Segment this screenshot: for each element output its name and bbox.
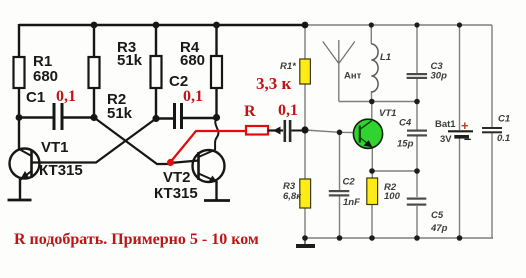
wire VT2 collector squiggle (215, 118, 218, 151)
inductor L1 (371, 44, 378, 92)
wire C2 1nF column (339, 132, 341, 238)
svg-text:VT1: VT1 (41, 139, 69, 156)
capacitor C3 (407, 61, 447, 82)
resistor R1* (yellow) (300, 59, 311, 84)
wire R1* column (304, 25, 306, 238)
svg-text:C2: C2 (343, 177, 356, 188)
svg-text:Ант: Ант (344, 71, 362, 82)
wire left column collector VT1 (18, 24, 20, 150)
wire R4 column (215, 25, 217, 118)
svg-text:680: 680 (33, 68, 58, 85)
svg-text:C5: C5 (431, 210, 444, 221)
wire R to coupling cap (268, 129, 283, 131)
svg-text:30p: 30p (431, 71, 448, 82)
node dots right circuit (302, 22, 309, 29)
ground bottom rail (296, 238, 315, 246)
node C: R3/C2/VT1 base (152, 115, 159, 122)
svg-text:КТ315: КТ315 (39, 162, 83, 179)
svg-text:51k: 51k (107, 105, 133, 122)
capacitor C2 1nF (329, 177, 360, 209)
svg-text:680: 680 (180, 52, 205, 69)
svg-text:C1: C1 (26, 89, 45, 106)
svg-text:VT1: VT1 (379, 108, 396, 119)
transistor VT1 (10, 139, 83, 200)
svg-text:0,1: 0,1 (183, 88, 203, 105)
svg-text:C1: C1 (498, 114, 510, 125)
svg-text:L1: L1 (380, 52, 391, 63)
svg-text:100: 100 (384, 191, 401, 202)
ground VT2 (204, 199, 230, 202)
svg-text:R: R (244, 103, 256, 120)
svg-text:0.1: 0.1 (497, 133, 510, 144)
wire L1 bottom to node (371, 91, 373, 102)
wire R3 column (155, 25, 157, 119)
wire bottom rail (305, 237, 494, 239)
resistor R1 (14, 57, 25, 88)
resistor R3 (151, 56, 162, 88)
resistor R (red) (246, 126, 268, 135)
svg-text:15p: 15p (397, 139, 414, 150)
arrowhead (273, 127, 281, 135)
capacitor C1 (right) (482, 114, 510, 145)
wire VT1 collector (371, 102, 373, 121)
svg-text:0,1: 0,1 (278, 102, 298, 119)
wire base feed (305, 130, 354, 133)
wire C3/C4/C5 column (416, 25, 418, 238)
svg-text:3V: 3V (440, 134, 452, 145)
wire antenna stem (338, 40, 340, 102)
antenna arms (323, 42, 355, 64)
svg-text:–: – (464, 131, 471, 146)
wire top rail right (thin gray) (305, 24, 492, 26)
wire emitter node to C4 (372, 170, 417, 172)
wire battery column (459, 25, 461, 238)
wire red link VT2 base to R (171, 131, 247, 162)
wire top rail left (thick) (19, 24, 305, 27)
resistor R3 6,8k (yellow) (300, 179, 311, 208)
capacitor C1 (19, 88, 94, 130)
svg-text:47p: 47p (430, 223, 448, 234)
capacitor 0,1 coupling (278, 102, 305, 142)
ground VT1 (8, 199, 32, 202)
svg-text:0,1: 0,1 (56, 88, 76, 105)
svg-text:C4: C4 (399, 118, 412, 129)
battery Bat1 (435, 118, 473, 146)
node junction dots on top rail (91, 22, 98, 29)
resistor R2 (89, 57, 100, 88)
wire cross-coupling C1 to VT2 base (94, 118, 170, 165)
svg-text:КТ315: КТ315 (154, 185, 198, 202)
svg-text:R1*: R1* (280, 61, 297, 72)
svg-text:VT2: VT2 (163, 169, 191, 186)
capacitor C4 (397, 118, 427, 150)
wire right edge column (C1) (492, 25, 493, 238)
resistor R4 (211, 56, 222, 88)
node red dot (167, 159, 174, 166)
capacitor C2 (156, 73, 217, 129)
svg-text:1nF: 1nF (343, 197, 360, 208)
wire horizontal antenna/L1/C3 node (339, 101, 417, 103)
svg-text:3,3 к: 3,3 к (256, 74, 292, 93)
wire cross-coupling C2 to VT1 base (32, 119, 156, 163)
wire R2 column (93, 25, 95, 118)
transistor VT2 (154, 150, 225, 202)
svg-text:Bat1: Bat1 (435, 119, 456, 130)
node A: R1/C1/VT1 collector (16, 114, 23, 121)
svg-text:R подобрать. Примерно 5 - 10 к: R подобрать. Примерно 5 - 10 ком (14, 231, 259, 248)
wire VT1 emitter / R2 column (371, 147, 373, 238)
node D: R4/C2/VT2 collector (213, 114, 220, 121)
svg-text:6,8к: 6,8к (283, 191, 302, 202)
capacitor C5 (407, 198, 448, 235)
transistor VT1 (green RF) (353, 108, 396, 148)
svg-text:51k: 51k (117, 52, 143, 69)
node B: R2/C1/VT2 base (90, 114, 97, 121)
wire L1 column top (370, 25, 372, 44)
resistor R2 100 (yellow) (367, 178, 378, 205)
